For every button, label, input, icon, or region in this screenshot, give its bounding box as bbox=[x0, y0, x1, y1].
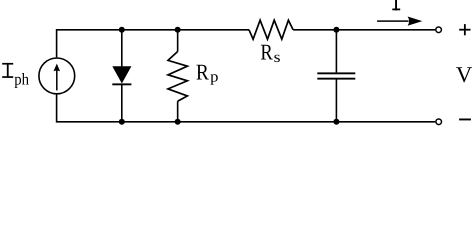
label Rs bbox=[260, 40, 280, 66]
svg-text:R: R bbox=[196, 59, 209, 84]
svg-text:s: s bbox=[274, 49, 281, 66]
wire: bottom rail bbox=[57, 95, 436, 122]
wire: top rail left section (corner to Rs) bbox=[57, 30, 249, 58]
svg-text:ph: ph bbox=[14, 70, 29, 89]
wire: capacitor branch stubs bbox=[335, 30, 337, 73]
junction dot diode bottom bbox=[119, 119, 125, 125]
capacitor C1 plates bbox=[317, 72, 355, 79]
svg-text:V: V bbox=[456, 62, 472, 87]
current source U1 circle bbox=[39, 58, 75, 94]
label Rp bbox=[196, 59, 219, 85]
junction dot capacitor bottom bbox=[333, 119, 339, 125]
junction dot Rp bottom bbox=[175, 119, 181, 125]
terminal - (bottom right open circle) bbox=[436, 119, 442, 125]
wire: top rail right section (Rs to + terminal) bbox=[293, 29, 435, 31]
svg-text:p: p bbox=[210, 69, 219, 86]
terminal + (top right open circle) bbox=[436, 27, 442, 33]
junction dot diode top bbox=[119, 27, 125, 33]
junction dot Rp top bbox=[175, 27, 181, 33]
svg-text:R: R bbox=[260, 40, 272, 65]
diode D1 bbox=[112, 66, 131, 85]
label + bbox=[459, 24, 470, 35]
resistor Rp zigzag bbox=[168, 52, 187, 102]
wire: diode branch vertical bbox=[121, 30, 123, 67]
current source arrow bbox=[54, 64, 61, 91]
label minus bbox=[459, 119, 471, 121]
label I (clipped at top) bbox=[392, 0, 400, 10]
junction dot capacitor top bbox=[333, 27, 339, 33]
resistor Rs zigzag bbox=[249, 20, 293, 39]
label I_ph bbox=[2, 63, 29, 89]
current arrow I on top wire bbox=[377, 17, 422, 26]
wire: Rp branch stubs bbox=[177, 30, 179, 52]
